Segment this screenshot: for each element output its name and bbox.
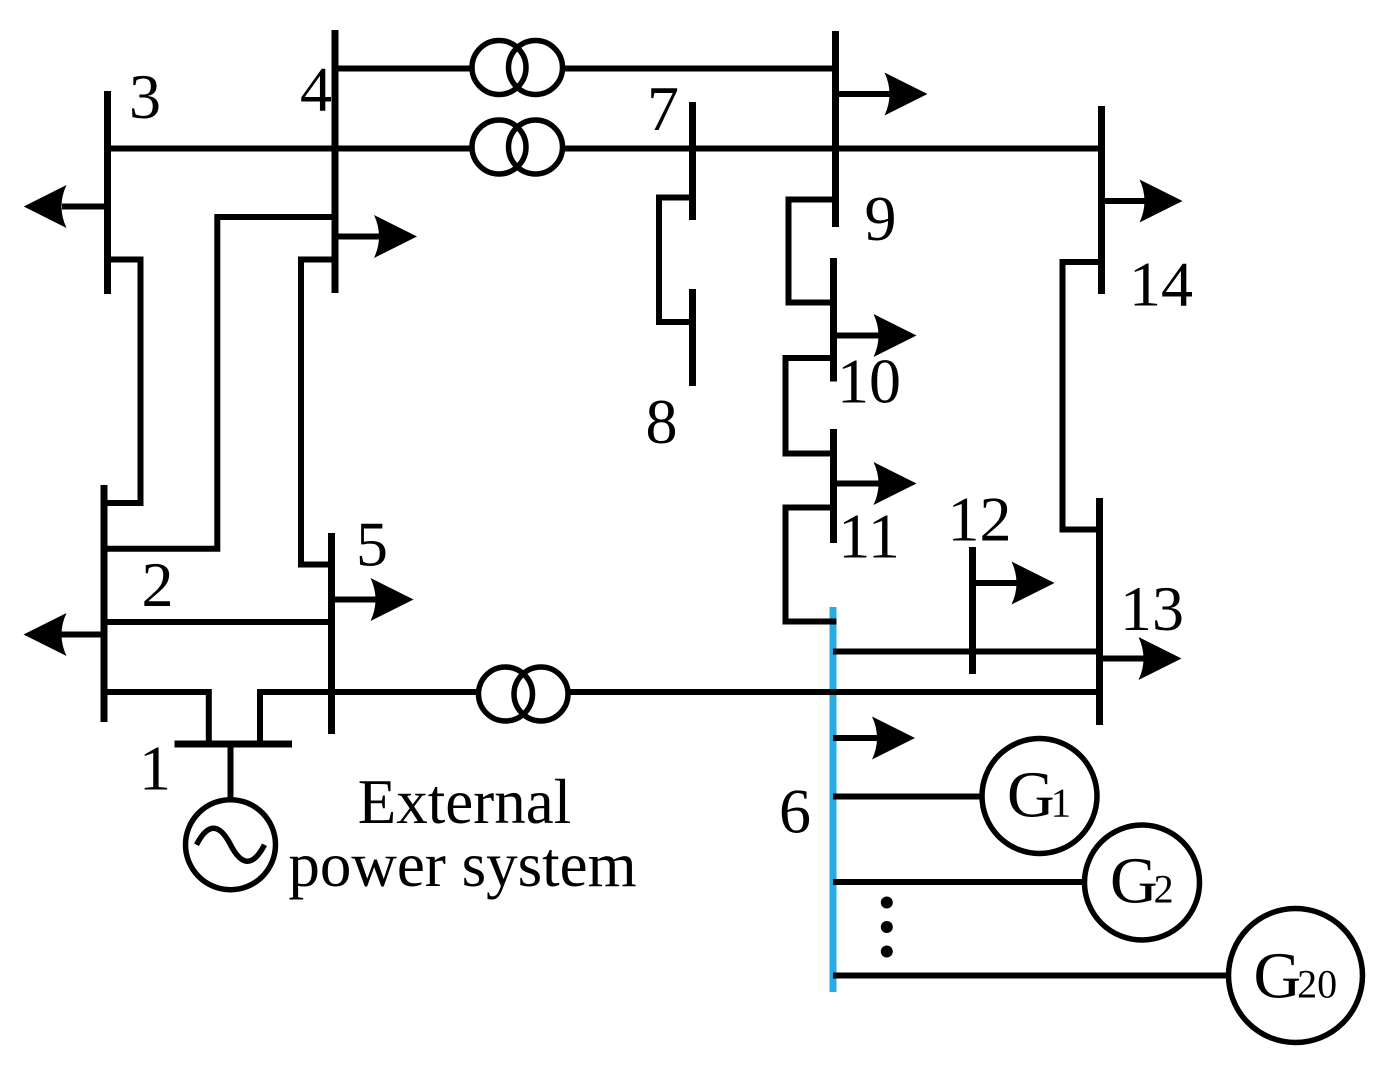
svg-text:12: 12: [948, 484, 1012, 555]
bus 6 (cyan): [830, 607, 837, 992]
transformer T1 (bus4-bus9 line): [472, 41, 563, 95]
bus 12: [969, 547, 976, 674]
load arrow at bus 10: [834, 314, 917, 357]
bus 11: [830, 429, 837, 543]
wire: bus2 to bus5: [104, 619, 332, 625]
wire line C: bus1 riser to bus13 via transformer T3, bus5, bus6: [260, 692, 1100, 744]
svg-text:10: 10: [837, 346, 901, 417]
wire: bus9 to bus10: [789, 200, 836, 303]
wire: bus3 to bus2: [104, 260, 141, 504]
svg-text:2: 2: [142, 549, 174, 620]
wire: bus4 to bus5: [301, 260, 335, 565]
svg-text:8: 8: [646, 386, 678, 457]
svg-text:1: 1: [139, 733, 171, 804]
svg-text:External: External: [358, 767, 571, 837]
svg-text:7: 7: [647, 73, 679, 144]
load arrow at bus 3: [24, 185, 108, 228]
svg-text:3: 3: [129, 61, 161, 132]
external generator G (sine source): [186, 800, 276, 890]
sine wave inside generator: [197, 828, 265, 861]
generator G2: [1085, 825, 1200, 940]
svg-text:9: 9: [865, 183, 897, 254]
bus 5: [328, 533, 335, 734]
load arrow at bus 6: [833, 717, 915, 760]
bus 8: [689, 289, 696, 386]
load arrow at bus 5: [332, 578, 414, 621]
bus 13: [1096, 498, 1103, 725]
transformer T3 (bus1-bus13 line): [479, 667, 569, 721]
generator G1 lead wire: [833, 794, 982, 800]
bus 3: [104, 91, 111, 294]
load arrow at bus 12: [973, 562, 1055, 605]
load arrow at bus 9: [836, 73, 928, 116]
bus 2: [101, 485, 108, 722]
bus 9: [832, 31, 839, 227]
wire: bus7 to bus8: [659, 198, 693, 323]
ellipsis dots between G2 and G20: [881, 897, 893, 958]
svg-text:4: 4: [300, 54, 332, 125]
generator G1: [982, 739, 1097, 854]
svg-text:14: 14: [1129, 249, 1193, 320]
bus 10: [830, 258, 837, 382]
bus 7: [689, 102, 696, 220]
transformer T2 (bus3-bus14 line): [472, 120, 563, 174]
bus 1: [175, 741, 293, 748]
bus 4: [332, 30, 339, 293]
wire line B: bus3 to bus14 via transformer T2, bus7, bus9: [108, 146, 1102, 152]
svg-text:6: 6: [779, 776, 811, 847]
generator G20 lead wire: [833, 973, 1229, 979]
load arrow at bus 13: [1100, 637, 1182, 680]
load arrow at bus 11: [834, 462, 917, 505]
load arrow at bus 4: [335, 215, 417, 258]
svg-text:13: 13: [1120, 573, 1184, 644]
generator G2 lead wire: [833, 879, 1085, 885]
wire line A: bus4 to bus9 via transformer T1: [335, 66, 836, 72]
wire: bus6 to bus13 via bus12: [833, 649, 1100, 655]
svg-text:power system: power system: [288, 830, 636, 900]
load arrow at bus 14: [1102, 180, 1183, 223]
wire: bus4 to bus2: [104, 217, 335, 549]
svg-text:5: 5: [356, 509, 388, 580]
generator G20: [1229, 909, 1363, 1043]
svg-text:11: 11: [838, 501, 900, 572]
load arrow at bus 2: [24, 613, 105, 656]
bus 14: [1098, 106, 1105, 294]
wire: bus2 down-corner to bus1: [104, 692, 209, 744]
wire: bus10 to bus11: [786, 358, 834, 454]
wire: bus11 to bus6: [786, 508, 837, 622]
wire: bus14 to bus13: [1063, 262, 1102, 530]
external generator lead wire: [228, 744, 234, 799]
